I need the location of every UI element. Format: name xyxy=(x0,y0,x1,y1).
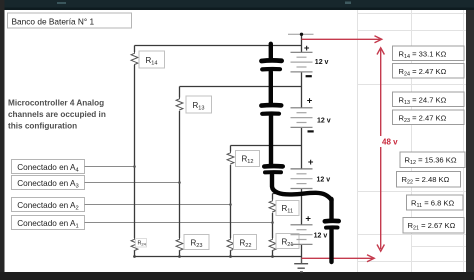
wire A3 to divider xyxy=(85,182,180,184)
red measure arrow bottom xyxy=(302,255,375,262)
marker battery M1 xyxy=(262,58,282,63)
svg-text:channels are occupied in: channels are occupied in xyxy=(8,110,106,119)
battery B3 plates xyxy=(291,108,313,128)
svg-text:Conectado en A2: Conectado en A2 xyxy=(17,201,79,211)
wire R13 branch vertical xyxy=(179,87,181,257)
svg-text:Conectado en A4: Conectado en A4 xyxy=(17,163,79,173)
value box R12 xyxy=(400,152,465,168)
resistor R23 zigzag xyxy=(176,238,183,251)
svg-text:+: + xyxy=(305,214,311,225)
wire loop4 top xyxy=(135,45,302,47)
label R11 xyxy=(276,201,299,216)
value box R23 xyxy=(393,110,465,125)
wire loop2 top xyxy=(231,145,302,147)
red measure arrow top xyxy=(302,36,382,43)
label R24 small xyxy=(136,239,147,248)
battery B1 plates xyxy=(291,225,313,245)
value box R11 xyxy=(407,195,464,210)
excel grid right area xyxy=(357,10,466,272)
marker wire v4 + swoosh xyxy=(272,174,332,200)
node bottom rail junctions xyxy=(133,255,136,258)
ground xyxy=(294,258,308,272)
svg-text:12 v: 12 v xyxy=(317,177,331,184)
marker wire v5 xyxy=(329,199,333,219)
value box R22 xyxy=(397,172,461,188)
marker battery M3 xyxy=(264,164,282,169)
resistor R13 zigzag xyxy=(176,98,183,111)
right black edge bar xyxy=(466,10,474,272)
marker wire v3 xyxy=(269,116,273,165)
top teal bar xyxy=(0,0,474,10)
label box conectado A4 xyxy=(12,160,85,174)
wire R11 branch vertical xyxy=(272,194,274,257)
resistor R11 zigzag xyxy=(269,200,276,213)
red measure arrow vertical 48v xyxy=(377,48,384,251)
value box R14 xyxy=(393,46,465,61)
title box xyxy=(8,13,132,28)
svg-text:+: + xyxy=(308,157,314,168)
resistor R21 zigzag xyxy=(269,238,276,251)
svg-text:Conectado en A3: Conectado en A3 xyxy=(17,179,79,189)
value box R13 xyxy=(393,92,465,107)
wire R14 branch vertical xyxy=(134,46,136,257)
battery B2 minus xyxy=(307,191,313,193)
battery B4 plates xyxy=(291,52,313,72)
battery B2 plates xyxy=(291,169,313,189)
marker wire v1 xyxy=(269,44,273,58)
wire A2 to divider xyxy=(85,204,231,206)
label box conectado A1 xyxy=(12,216,85,230)
wire loop1 top xyxy=(273,193,302,195)
marker battery M2 xyxy=(261,103,281,108)
node A3 junction xyxy=(178,181,181,184)
bottom black bar xyxy=(0,272,474,280)
svg-text:Banco de Batería N° 1: Banco de Batería N° 1 xyxy=(12,17,95,27)
bold marker battery string xyxy=(261,44,338,262)
node battery positive xyxy=(300,33,303,36)
svg-text:+: + xyxy=(304,43,310,54)
wire loop3 top xyxy=(180,86,302,88)
battery B4 minus xyxy=(306,75,312,77)
label box conectado A2 xyxy=(12,198,85,212)
svg-text:12 v: 12 v xyxy=(315,59,329,66)
resistor R24 zigzag xyxy=(131,238,138,251)
wire battery column xyxy=(301,34,303,257)
svg-text:12 v: 12 v xyxy=(314,233,328,240)
label R23 xyxy=(184,235,209,250)
resistor R14 zigzag xyxy=(131,52,138,65)
marker battery M4 xyxy=(325,219,339,224)
label R22 xyxy=(234,235,257,250)
left black edge bar xyxy=(0,0,5,280)
wire R12 branch vertical xyxy=(230,146,232,257)
label R14 xyxy=(139,51,165,68)
label R12 xyxy=(236,151,260,167)
node A2 junction xyxy=(229,203,232,206)
label R21 xyxy=(276,234,299,249)
svg-text:12 v: 12 v xyxy=(317,118,331,125)
wire A4 to divider xyxy=(85,166,135,168)
battery top terminal stub xyxy=(288,33,314,35)
wire A1 to divider xyxy=(85,222,273,224)
resistor R22 zigzag xyxy=(227,238,234,251)
svg-text:48 v: 48 v xyxy=(382,138,398,147)
wire bottom rail xyxy=(135,256,302,258)
value box R21 xyxy=(403,218,464,234)
svg-text:this configuration: this configuration xyxy=(8,122,77,131)
svg-text:Conectado en A1: Conectado en A1 xyxy=(17,219,79,229)
svg-text:Microcontroller 4 Analog: Microcontroller 4 Analog xyxy=(8,99,104,108)
svg-text:+: + xyxy=(307,96,313,107)
svg-text:R24: R24 xyxy=(138,241,147,247)
node A4 junction xyxy=(133,165,136,168)
label box conectado A3 xyxy=(12,176,85,190)
resistor R12 zigzag xyxy=(227,152,234,165)
value box R24 xyxy=(393,64,465,79)
label R13 xyxy=(186,96,212,113)
node A1 junction xyxy=(271,221,274,224)
note text microcontroller xyxy=(8,99,106,131)
marker wire v2 xyxy=(269,72,273,104)
battery B3 minus xyxy=(308,130,314,132)
marker wire v6 xyxy=(329,230,333,262)
